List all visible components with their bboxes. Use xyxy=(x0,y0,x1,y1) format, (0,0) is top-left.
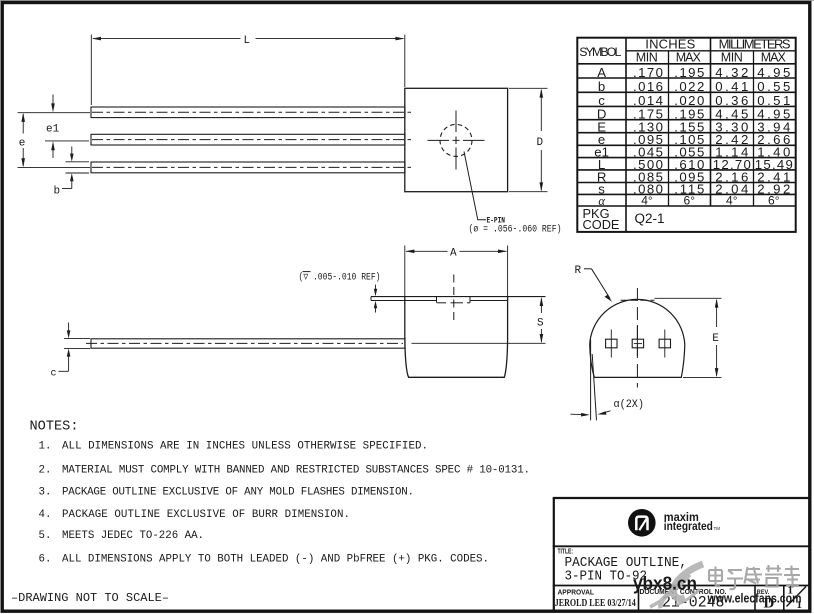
dimension D xyxy=(509,88,548,191)
table header text xyxy=(579,36,791,64)
lead 2 outline xyxy=(91,134,405,145)
svg-text:D: D xyxy=(537,137,544,149)
dimension e1 xyxy=(52,95,54,109)
svg-text:MAX: MAX xyxy=(676,50,702,64)
svg-text:CODE: CODE xyxy=(583,217,620,232)
lead 2 cross-section xyxy=(632,339,643,348)
alpha right arrow xyxy=(602,411,611,413)
svg-text:E: E xyxy=(712,333,719,345)
lead 1 outline xyxy=(91,107,405,118)
svg-text:4.95: 4.95 xyxy=(757,65,790,80)
svg-text:4.: 4. xyxy=(39,509,52,521)
dimension b xyxy=(62,147,89,189)
svg-text:(▽ .005-.010 REF): (▽ .005-.010 REF) xyxy=(299,271,381,283)
svg-text:L: L xyxy=(244,35,251,47)
svg-text:S: S xyxy=(537,317,544,329)
svg-text:6.: 6. xyxy=(39,554,52,566)
e-pin crosshair horizontal xyxy=(428,139,485,141)
svg-text:MIN: MIN xyxy=(721,50,743,64)
svg-text:JEROLD LEE 03/27/14: JEROLD LEE 03/27/14 xyxy=(555,597,636,609)
maxim logo circle xyxy=(628,509,656,537)
dimension c xyxy=(59,323,91,372)
svg-text:INCHES: INCHES xyxy=(645,36,695,51)
svg-text:c: c xyxy=(51,368,57,379)
svg-text:ALL DIMENSIONS ARE IN INCHES U: ALL DIMENSIONS ARE IN INCHES UNLESS OTHE… xyxy=(62,441,428,453)
svg-text:A: A xyxy=(597,65,606,80)
dimension E xyxy=(655,298,722,377)
body top edge / seating line xyxy=(371,296,546,298)
alpha draft angle lines xyxy=(590,340,592,421)
body outline xyxy=(405,297,508,377)
lead outline xyxy=(91,339,405,348)
svg-text:4°: 4° xyxy=(641,193,653,207)
svg-text:e: e xyxy=(19,137,26,149)
table data rows xyxy=(594,65,793,208)
svg-text:TM: TM xyxy=(714,526,721,531)
svg-text:MEETS JEDEC TO-226 AA.: MEETS JEDEC TO-226 AA. xyxy=(62,530,204,542)
svg-text:MAX: MAX xyxy=(761,50,787,64)
svg-text:APPROVAL: APPROVAL xyxy=(558,590,595,597)
maxim logo mark xyxy=(636,517,647,531)
svg-text:www.elecfans.com: www.elecfans.com xyxy=(707,591,802,606)
vertical dashed centerline xyxy=(636,288,638,388)
svg-text:4.32: 4.32 xyxy=(715,65,748,80)
gray swoosh logo xyxy=(650,564,703,608)
svg-text:A: A xyxy=(450,248,457,260)
svg-text:5.: 5. xyxy=(39,530,52,542)
lead 1 centerline xyxy=(92,111,411,113)
svg-text:MATERIAL MUST COMPLY WITH BANN: MATERIAL MUST COMPLY WITH BANNED AND RES… xyxy=(62,464,530,476)
alpha left arrow xyxy=(571,413,583,415)
lead 3 outline xyxy=(91,162,405,173)
svg-text:.022: .022 xyxy=(674,79,704,94)
svg-text:4°: 4° xyxy=(726,193,738,207)
svg-text:PACKAGE OUTLINE EXCLUSIVE OF B: PACKAGE OUTLINE EXCLUSIVE OF BURR DIMENS… xyxy=(62,509,350,521)
svg-text:6°: 6° xyxy=(768,193,780,207)
svg-text:PACKAGE OUTLINE EXCLUSIVE OF A: PACKAGE OUTLINE EXCLUSIVE OF ANY MOLD FL… xyxy=(62,487,414,499)
svg-text:α(2X): α(2X) xyxy=(614,399,645,411)
svg-text:ybx8.cn: ybx8.cn xyxy=(633,574,697,594)
svg-text:MILLIMETERS: MILLIMETERS xyxy=(719,36,791,51)
svg-text:2.: 2. xyxy=(39,464,52,476)
svg-text:0.55: 0.55 xyxy=(757,79,790,94)
dimension e xyxy=(18,113,91,168)
lead centerline xyxy=(86,342,403,344)
dimension S xyxy=(412,342,546,344)
e-pin center dashed line xyxy=(453,275,455,324)
dome body outline xyxy=(590,299,685,377)
svg-text:R: R xyxy=(575,265,582,277)
svg-text:–DRAWING NOT TO SCALE–: –DRAWING NOT TO SCALE– xyxy=(11,592,169,605)
lead 3 centerline xyxy=(92,166,411,168)
svg-text:TITLE:: TITLE: xyxy=(558,549,574,556)
table grid xyxy=(577,38,795,232)
e-pin dashed circle xyxy=(440,124,472,156)
lead 3 cross-section xyxy=(659,339,670,348)
svg-text:NOTES:: NOTES: xyxy=(30,419,79,434)
dimension L xyxy=(91,35,405,106)
svg-text:b: b xyxy=(54,186,61,198)
svg-text:.170: .170 xyxy=(633,65,663,80)
hidden chord dashed xyxy=(621,299,655,301)
svg-text:3.: 3. xyxy=(39,487,52,499)
svg-text:.016: .016 xyxy=(633,79,663,94)
svg-text:.195: .195 xyxy=(674,65,704,80)
lead 1 cross-section xyxy=(606,339,617,348)
svg-text:ALL DIMENSIONS APPLY TO BOTH L: ALL DIMENSIONS APPLY TO BOTH LEADED (-) … xyxy=(62,554,489,566)
chinese watermark glyphs xyxy=(709,565,800,589)
dimension A xyxy=(405,246,508,297)
flatness arrows xyxy=(375,285,377,293)
svg-text:MIN: MIN xyxy=(636,50,658,64)
svg-text:0.41: 0.41 xyxy=(715,79,748,94)
svg-text:e1: e1 xyxy=(46,124,60,136)
E-PIN leader line xyxy=(464,152,486,220)
svg-text:6°: 6° xyxy=(684,193,696,207)
body outline xyxy=(405,88,508,191)
svg-text:(ø = .056-.060 REF): (ø = .056-.060 REF) xyxy=(469,223,562,235)
svg-text:1.: 1. xyxy=(39,441,52,453)
hidden e-pin notch xyxy=(437,297,471,303)
flash ledge line xyxy=(371,300,437,302)
svg-text:Q2-1: Q2-1 xyxy=(635,211,665,226)
svg-text:b: b xyxy=(598,79,605,94)
e-pin crosshair vertical xyxy=(455,111,457,170)
svg-text:integrated: integrated xyxy=(664,519,713,533)
svg-text:SYMBOL: SYMBOL xyxy=(579,45,621,59)
lead 2 centerline xyxy=(92,139,411,141)
